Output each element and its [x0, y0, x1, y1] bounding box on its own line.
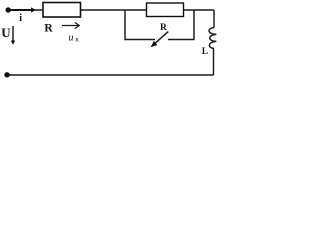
- svg-text:U: U: [1, 25, 11, 40]
- svg-text:i: i: [19, 13, 22, 24]
- svg-text:u: u: [69, 33, 74, 44]
- svg-text:R: R: [160, 23, 167, 33]
- svg-text:L: L: [202, 47, 208, 57]
- svg-text:R: R: [44, 23, 53, 35]
- svg-text:R: R: [75, 37, 79, 43]
